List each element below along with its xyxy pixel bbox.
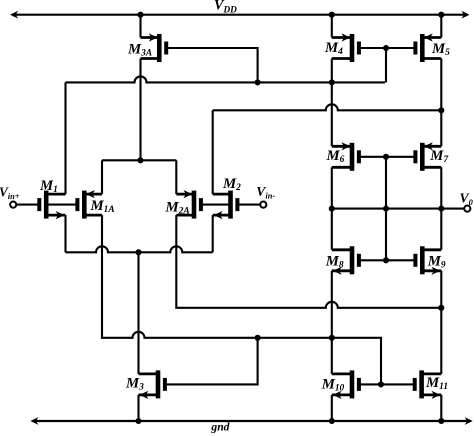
junction VDD / M4 xyxy=(329,12,335,18)
junction M4-M5 gates xyxy=(383,45,389,51)
wire M3A gate lead xyxy=(166,48,257,82)
wire M10-M11 gate tie xyxy=(359,383,415,385)
transistor M2A xyxy=(176,190,201,219)
wire M4-M5 gate tie xyxy=(359,47,416,49)
junction M6 source on output row xyxy=(329,206,335,212)
wire Vin+ to M1 gate xyxy=(16,204,39,206)
wire M2A source to M9 source node xyxy=(176,215,441,308)
wire M1 drain riser xyxy=(64,82,66,194)
wire M5 source to M7 drain xyxy=(440,59,442,147)
wire M6-M7 gate tie xyxy=(359,156,416,158)
wire M6-M7 gate junction drop to output node xyxy=(385,157,387,260)
junction M2 drain on right chain xyxy=(438,107,444,113)
transistor M9 xyxy=(415,246,441,275)
wire M4-M5 gate junction drop to node B xyxy=(385,48,387,82)
transistor M6 xyxy=(332,142,359,171)
terminal Vin- xyxy=(260,202,266,208)
junction M4 drain on node B xyxy=(329,79,335,85)
transistor M1A xyxy=(77,190,102,219)
transistor M8 xyxy=(332,246,359,275)
junction gate drop on output row xyxy=(383,206,389,212)
transistor M4 xyxy=(332,33,359,62)
junction VDD / M3A xyxy=(137,12,143,18)
wire M4 source to M6 drain xyxy=(331,59,333,147)
wire M1A drain riser xyxy=(101,160,103,194)
wire input tail horizontal (M1/M2 sources) xyxy=(66,246,213,252)
wire M9 source to M11 drain xyxy=(440,271,442,374)
wire M1A source to bias node row (M3 gate / M8 source / M10-M11 gates) xyxy=(102,215,381,384)
wire M8-M9 gate tie xyxy=(359,259,416,261)
transistor M1 xyxy=(39,191,65,220)
junction gnd / M10 xyxy=(329,418,335,424)
wire M7 source to M9 drain xyxy=(440,167,442,250)
wire M2 gate to Vin- xyxy=(238,204,261,206)
wire M3A drain to VDD xyxy=(139,15,141,38)
junction M8-M9 gates xyxy=(383,257,389,263)
junction VDD / M5 xyxy=(438,12,444,18)
VDD power rail xyxy=(10,11,469,19)
junction M3 gate on bias node xyxy=(255,335,261,341)
wire M3 gate lead to bias node xyxy=(165,338,258,385)
wire node C horizontal (M1A drain / M2A drain / M3A source) xyxy=(102,159,176,161)
transistor M3 xyxy=(139,370,165,399)
terminal V0 xyxy=(464,206,470,212)
junction gnd / M3 xyxy=(135,418,141,424)
wire tail to M3 drain xyxy=(137,252,139,374)
transistor M7 xyxy=(415,142,441,171)
wire M5 source to VDD xyxy=(440,15,442,38)
wire M1 source drop xyxy=(64,215,66,252)
junction gnd / M11 xyxy=(438,418,444,424)
junction M10-M11 gates xyxy=(378,381,384,387)
terminal Vin+ xyxy=(10,202,16,208)
transistor M3A xyxy=(141,33,167,62)
wire M6 source to M8 drain xyxy=(331,167,333,250)
wire M4 source to VDD xyxy=(331,15,333,38)
wire M8 source to M10 drain xyxy=(331,271,333,374)
junction M3A source on node C xyxy=(137,157,143,163)
wire M2A drain riser xyxy=(175,160,177,194)
wire output node row to V0 terminal xyxy=(332,208,464,210)
wire M2 source drop xyxy=(212,215,214,252)
wire node D horizontal (M2 drain to M5/M7 chain) xyxy=(213,104,442,110)
wire M11 source to gnd xyxy=(440,395,442,421)
junction M7 source on output row xyxy=(438,206,444,212)
junction M6-M7 gates xyxy=(383,154,389,160)
wire M2 drain riser xyxy=(212,110,214,194)
transistor M5 xyxy=(415,33,441,62)
transistor M2 xyxy=(213,191,238,220)
wire M2A gate to M2 xyxy=(201,204,230,206)
transistor M11 xyxy=(415,370,442,399)
wire M3A source down to tail of cascode pair xyxy=(139,59,141,161)
junction tail xyxy=(135,249,141,255)
junction M8 source on bias node xyxy=(329,335,335,341)
junction M9 source node xyxy=(438,305,444,311)
junction M3A gate on node B xyxy=(255,79,261,85)
wire M1A gate to M1 xyxy=(47,204,78,206)
wire M3 source to gnd xyxy=(137,395,139,421)
wire node B horizontal (M1 drain / M3A gate / M4 drain / M4-M5 gates) xyxy=(66,76,385,82)
ground rail gnd xyxy=(30,417,472,425)
svg-text:gnd: gnd xyxy=(210,421,229,434)
transistor M10 xyxy=(332,370,359,399)
wire M10 source to gnd xyxy=(331,395,333,421)
